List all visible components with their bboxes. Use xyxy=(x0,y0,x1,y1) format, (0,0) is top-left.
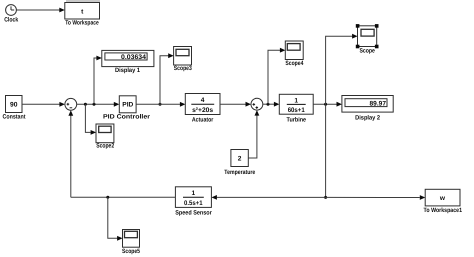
svg-text:2: 2 xyxy=(238,156,242,163)
svg-text:Scope2: Scope2 xyxy=(96,143,114,150)
svg-text:Temperature: Temperature xyxy=(224,169,255,176)
selection handles xyxy=(356,24,360,28)
block Constant (90) xyxy=(3,96,26,121)
svg-text:PID Controller: PID Controller xyxy=(103,114,151,121)
clock block Clock xyxy=(4,5,18,24)
svg-text:0.03634: 0.03634 xyxy=(121,54,146,61)
sum junction S1 (+,-) xyxy=(65,98,77,110)
wire branch to Scope5 xyxy=(108,197,123,240)
svg-text:60s+1: 60s+1 xyxy=(288,107,305,114)
wire Turbine to Display 2 with junction xyxy=(313,102,342,107)
svg-text:Scope: Scope xyxy=(359,48,375,55)
svg-text:Speed Sensor: Speed Sensor xyxy=(175,209,212,216)
junction node to Scope / feedback branch xyxy=(324,103,327,106)
wire Clock to To Workspace xyxy=(16,8,64,13)
block To Workspace1 (w) xyxy=(424,189,463,214)
wire S2 to Turbine with junction xyxy=(263,102,280,107)
block Display 1 (0.03634) xyxy=(102,50,154,74)
svg-text:s²+20s: s²+20s xyxy=(192,107,213,114)
svg-text:1: 1 xyxy=(294,97,298,104)
svg-text:To Workspace: To Workspace xyxy=(65,20,99,27)
svg-text:Turbine: Turbine xyxy=(287,116,307,123)
junction node to Display 1 branch xyxy=(93,103,96,106)
block Display 2 (89.97) xyxy=(342,96,393,122)
svg-text:w: w xyxy=(439,195,446,202)
scope block Scope3 xyxy=(174,47,193,73)
block Speed Sensor 1/(0.5s+1) xyxy=(175,187,212,217)
wire feedback vertical up to sum S1 xyxy=(68,110,73,197)
wire Temperature to sum S2 xyxy=(248,110,259,158)
wire branch up to Scope xyxy=(326,34,358,104)
wire Speed Sensor output to feedback left xyxy=(71,196,176,199)
wire branch to Scope2 xyxy=(85,104,96,135)
block Actuator 4/(s^2+20s) xyxy=(185,94,220,124)
svg-text:1: 1 xyxy=(191,190,195,197)
wire branch to Scope3 xyxy=(159,53,174,106)
wire branch to Display 1 xyxy=(94,56,102,105)
sum junction S2 (+,+) xyxy=(251,98,263,110)
svg-text:PID: PID xyxy=(122,102,133,109)
junction node to Scope2 branch xyxy=(84,103,87,106)
wire to Speed Sensor input (leftward) xyxy=(211,195,325,200)
svg-text:Clock: Clock xyxy=(4,17,18,24)
svg-text:89.97: 89.97 xyxy=(370,100,387,107)
svg-text:Scope4: Scope4 xyxy=(285,60,303,67)
block Turbine 1/(60s+1) xyxy=(279,94,313,123)
wire PID to Actuator xyxy=(136,102,185,107)
svg-text:Display 2: Display 2 xyxy=(355,114,381,121)
wire Actuator to sum S2 xyxy=(220,102,251,107)
svg-text:0.5s+1: 0.5s+1 xyxy=(184,200,203,207)
wire branch to Scope4 xyxy=(268,48,285,104)
svg-text:4: 4 xyxy=(201,97,205,104)
wire feedback branch down from Scope junction xyxy=(324,104,327,199)
scope block Scope2 xyxy=(96,124,115,150)
block PID Controller xyxy=(103,96,151,121)
wire to To Workspace1 xyxy=(326,195,426,200)
junction node to Scope5 branch xyxy=(106,196,109,199)
block To Workspace xyxy=(65,0,100,27)
block Temperature (2) xyxy=(224,150,255,177)
junction node to Scope4 branch xyxy=(267,103,270,106)
junction node on feedback line xyxy=(324,196,327,199)
svg-text:Scope3: Scope3 xyxy=(174,65,192,72)
svg-text:Scope5: Scope5 xyxy=(122,248,140,255)
scope block Scope5 xyxy=(122,230,140,256)
svg-text:To Workspace1: To Workspace1 xyxy=(424,207,463,214)
svg-text:Actuator: Actuator xyxy=(192,117,214,124)
wire Constant to sum S1 xyxy=(22,102,65,107)
svg-text:Constant: Constant xyxy=(3,114,26,121)
scope block Scope (selected) xyxy=(356,24,379,54)
wire S1 to PID with junctions xyxy=(77,102,120,107)
scope block Scope4 xyxy=(285,41,304,67)
svg-text:90: 90 xyxy=(10,102,18,109)
svg-text:Display 1: Display 1 xyxy=(115,67,141,74)
